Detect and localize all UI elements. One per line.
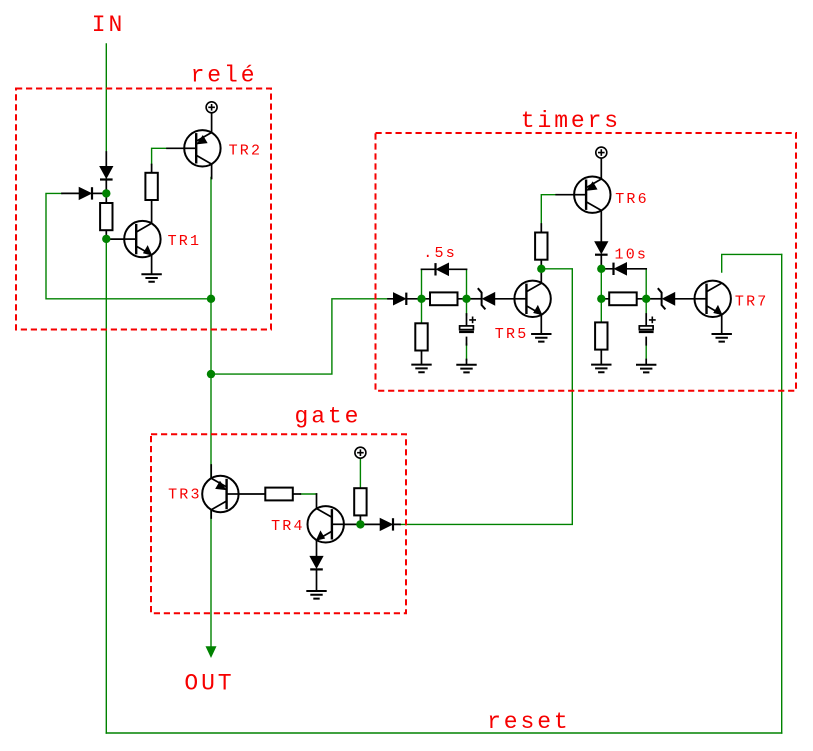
resistor R3 timer1 series [430, 292, 458, 305]
power plus TR6 [596, 147, 607, 158]
svg-text:TR7: TR7 [735, 293, 769, 310]
ground capacitor C1 [456, 365, 476, 373]
node timer2 left junction [597, 295, 605, 303]
diode UD1 timer1 top [436, 263, 449, 275]
wire resistor R4 top stub [540, 224, 542, 233]
OUT arrowhead [206, 646, 217, 658]
resistor R1 [100, 203, 112, 230]
node A junction [102, 189, 110, 197]
resistor R2 [145, 173, 157, 200]
wire IN vertical rail down to reset [105, 44, 107, 733]
power plus TR2 [206, 102, 217, 113]
wire TR4 base to node D [332, 523, 357, 525]
wire timer1 rail stubs [422, 298, 467, 300]
node timer2 top junction [597, 265, 605, 273]
ground gate diode D4 [306, 591, 326, 599]
diode D1 input top [100, 167, 113, 180]
svg-text:10s: 10s [615, 247, 649, 264]
box gate group [151, 434, 406, 613]
wire timer1 right riser [466, 269, 468, 299]
resistor R6 timer2 series [609, 292, 637, 305]
svg-text:gate: gate [295, 404, 362, 430]
wire timer2 capacitor to ground [645, 344, 647, 360]
wire resistor R2 bottom to TR1 collector [151, 201, 153, 223]
wire TR6 base left [541, 195, 556, 224]
wire resistor R2 top stub [151, 165, 153, 174]
wire TR5 collector to gate output net [400, 269, 572, 525]
box timers group [376, 133, 797, 391]
node TR1 base junction [102, 235, 110, 243]
power plus gate [355, 447, 366, 458]
svg-text:TR5: TR5 [495, 326, 529, 343]
wire timers input diode leads [388, 298, 418, 300]
wire TR2 base stub [167, 147, 196, 149]
wire TR3 top emitter stub [210, 465, 212, 479]
transistor TR7 [695, 281, 731, 317]
zener Z1 [478, 288, 495, 309]
wire diode D2 anode lead [62, 192, 79, 194]
ground timer1 leg [411, 365, 431, 373]
node timer2 right junction [642, 295, 650, 303]
wire TR6 emitter lead [600, 158, 602, 179]
ground TR7 emitter [712, 334, 732, 342]
resistor R7 timer2 leg [595, 322, 607, 349]
node D gate output junction [356, 520, 364, 528]
wire TR2 collector down through nodes to TR3 and OUT [210, 178, 212, 648]
wire timer2 capacitor drop [645, 299, 647, 315]
wire timer2 rail stubs [601, 298, 646, 300]
diode D2 feedback [79, 187, 92, 199]
wire TR3 collector stub to OUT [210, 509, 212, 518]
wire capacitor C1 lead stubs [466, 314, 468, 364]
transistor TR4 [308, 506, 344, 542]
resistor R5 timer1 leg [415, 323, 427, 350]
wire diode D6 to node [600, 255, 602, 266]
wire timer1 capacitor drop [466, 299, 468, 315]
node TR5 collector junction [537, 265, 545, 273]
transistor TR6 [574, 177, 610, 213]
diode D6 TR6 collector [595, 242, 608, 255]
diode D5 gate output [380, 518, 393, 530]
wire gate plus lead [359, 458, 361, 488]
wire node C branch right and up to timers input [211, 299, 391, 374]
wire diode D1 top lead [105, 152, 107, 166]
resistor R4 TR5 collector [535, 233, 547, 260]
wire diode D2 cathode to node A [92, 192, 103, 194]
wire timer2 main drop TR6 to leg [600, 265, 602, 324]
wire TR3 base to resistor R8 [227, 493, 266, 495]
wire TR1 base lead [109, 238, 136, 240]
resistor R9 gate pullup [354, 488, 366, 515]
wire timer2 top diode horizontals [601, 268, 646, 270]
svg-text:TR6: TR6 [615, 191, 649, 208]
wire zener Z2 to TR7 base [675, 298, 707, 300]
svg-text:.5s: .5s [423, 245, 457, 262]
wire TR2 emitter lead [211, 113, 213, 133]
resistor R8 gate series [265, 488, 293, 501]
ground TR1 emitter [141, 274, 161, 282]
svg-text:timers: timers [521, 108, 621, 134]
wire timer1 left riser [421, 269, 423, 299]
wire timer1 capacitor to ground [466, 344, 468, 360]
svg-text:TR3: TR3 [168, 487, 202, 504]
svg-text:OUT: OUT [184, 671, 234, 697]
ground TR5 emitter [531, 334, 551, 342]
ground timer2 leg [591, 365, 611, 373]
wire reset bottom horizontal [106, 732, 781, 734]
wire TR1 emitter to ground [151, 255, 153, 274]
wire reset top to TR7 collector [722, 254, 782, 272]
wire TR6 base stub [556, 194, 586, 196]
svg-text:TR4: TR4 [271, 518, 305, 535]
capacitor C1 [459, 317, 476, 332]
diode UD2 timer2 top 10s [614, 263, 627, 275]
wire diode D5 leads [365, 523, 401, 525]
wire TR4 emitter to diode D4 [316, 540, 318, 557]
wire zener Z1 to TR5 base [495, 298, 527, 300]
wire TR6 collector to diode D6 [600, 210, 602, 241]
svg-text:TR2: TR2 [229, 143, 263, 160]
wire capacitor C2 lead stubs [645, 314, 647, 364]
wire gate resistor to TR4 collector corner [300, 493, 316, 495]
wire feedback from diode left around to node B [46, 193, 211, 298]
transistor TR2 [184, 130, 220, 166]
wire resistor R1 stubs [105, 194, 107, 236]
node B junction [207, 295, 215, 303]
svg-text:TR1: TR1 [168, 233, 202, 250]
wire TR2 base left and down to resistor [152, 148, 167, 164]
capacitor C2 [639, 317, 656, 332]
svg-text:relé: relé [191, 63, 258, 89]
wire timer2 right junction to zener Z2 [650, 298, 662, 300]
wire diode D4 to ground [316, 571, 318, 591]
svg-text:IN: IN [92, 12, 125, 38]
wire R8 right lead [293, 493, 301, 495]
wire timer1 top diode horizontals [422, 268, 467, 270]
transistor TR3 [202, 476, 238, 512]
transistor TR5 [514, 281, 550, 317]
wire resistor R9 bottom stub [359, 514, 361, 521]
wire timer2 leg resistor to ground [600, 349, 602, 364]
node timer1 left junction [417, 295, 425, 303]
wire TR7 emitter to ground [721, 314, 723, 333]
wire TR5 collector stubs and node [540, 260, 542, 283]
node C junction [207, 370, 215, 378]
node timer1 right junction [462, 295, 470, 303]
wire timer1 leg drop [421, 299, 423, 324]
wire TR4 collector corner down [316, 494, 318, 509]
wire diode D1 bottom lead to node A [105, 181, 107, 190]
wire timer1 right junction to zener Z1 [470, 298, 481, 300]
wire timer1 leg resistor to ground [421, 351, 423, 365]
diode D3 timers input [394, 293, 407, 305]
ground capacitor C2 [636, 365, 656, 373]
wire reset right riser [781, 254, 783, 733]
transistor TR1 [124, 221, 160, 257]
svg-text:reset: reset [487, 709, 571, 735]
box rele group [16, 89, 271, 330]
diode D4 gate emitter [310, 556, 323, 569]
wire TR2 collector stub [211, 164, 213, 178]
zener Z2 [658, 288, 675, 309]
wire TR5 emitter to ground [540, 314, 542, 333]
wire timer2 right riser [645, 269, 647, 299]
